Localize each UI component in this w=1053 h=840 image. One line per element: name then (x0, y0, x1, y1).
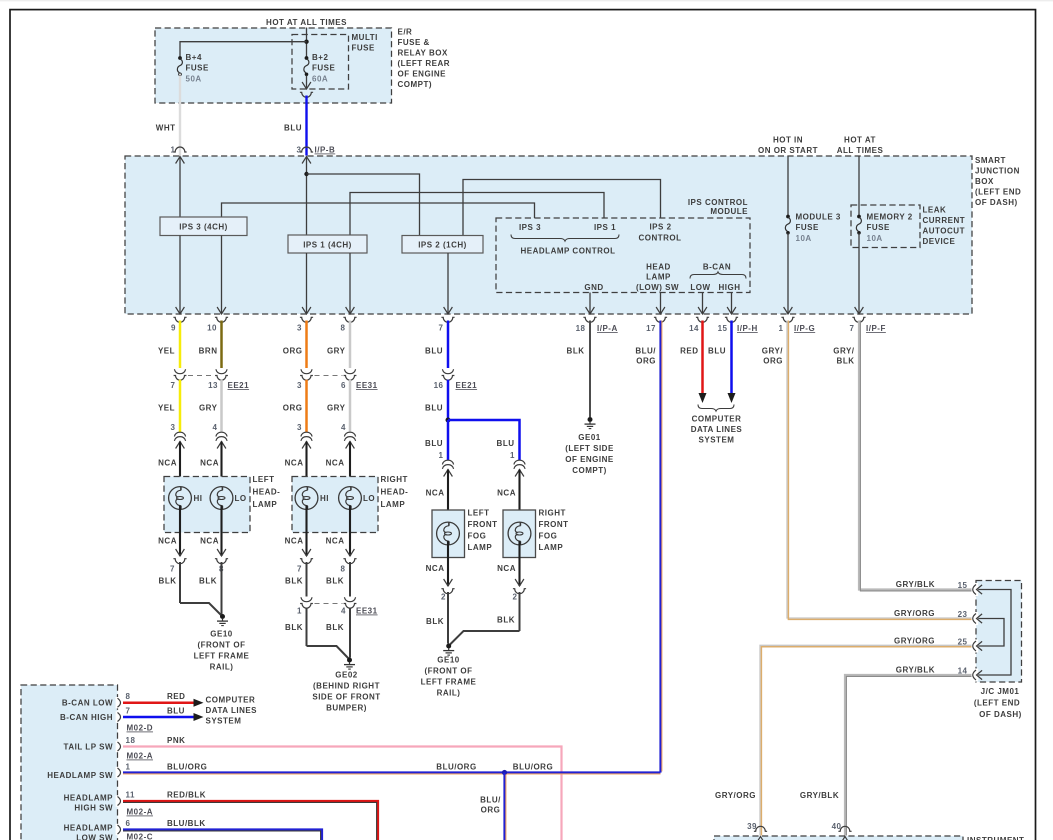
svg-text:HOT AT: HOT AT (844, 136, 876, 145)
wire BLK pin18 to GE01 (589, 321, 591, 418)
svg-text:1: 1 (126, 763, 131, 772)
connector EE31 pin4 (344, 597, 357, 608)
svg-text:BLK: BLK (159, 577, 177, 586)
pin 15 I/P-H (727, 307, 736, 314)
svg-text:RIGHT: RIGHT (539, 509, 566, 518)
wire branch to B+4 (180, 42, 307, 58)
bulb left fog (437, 522, 460, 545)
wire BLU pin7 (447, 321, 450, 369)
pin 8 (346, 307, 355, 314)
svg-text:ORG: ORG (636, 357, 656, 366)
svg-text:NCA: NCA (200, 459, 219, 468)
brace under arrows (698, 405, 734, 412)
wire YEL pin9 (179, 321, 182, 369)
svg-text:I/P-H: I/P-H (737, 324, 758, 333)
wire BLU branch to right fog (448, 420, 520, 461)
fuse B+4 50A (177, 56, 182, 76)
pin 6 M02-C (headlamp low sw) (116, 824, 120, 835)
svg-text:NCA: NCA (497, 489, 516, 498)
svg-text:6: 6 (126, 819, 131, 828)
svg-text:NCA: NCA (200, 537, 219, 546)
svg-text:GRY/ORG: GRY/ORG (894, 609, 935, 618)
svg-text:HIGH SW: HIGH SW (74, 804, 113, 813)
svg-text:WHT: WHT (156, 124, 176, 133)
bulb left headlamp HI (169, 487, 192, 510)
svg-text:HEADLAMP: HEADLAMP (64, 824, 113, 833)
connector below left headlamp pin8 (217, 549, 226, 556)
svg-text:1: 1 (510, 451, 515, 460)
connector below left fog pin2 (444, 579, 453, 586)
svg-text:BLU/: BLU/ (480, 796, 501, 805)
svg-text:3: 3 (171, 423, 176, 432)
arrow into computer data lines (red) (699, 393, 707, 403)
svg-text:7: 7 (850, 324, 855, 333)
pin 17 (656, 307, 665, 314)
svg-text:OF DASH): OF DASH) (975, 198, 1018, 207)
svg-text:8: 8 (341, 324, 346, 333)
wire RED b-can low (123, 701, 194, 704)
svg-text:COMPT): COMPT) (572, 466, 607, 475)
node fog branch (446, 418, 451, 423)
svg-text:COMPUTER: COMPUTER (692, 415, 742, 424)
svg-text:NCA: NCA (497, 564, 516, 573)
svg-text:M02-A: M02-A (127, 752, 154, 761)
svg-text:FOG: FOG (539, 532, 558, 541)
svg-text:INSTRUMENT: INSTRUMENT (967, 836, 1024, 840)
pin 7 I/P-F (855, 307, 864, 314)
ground GE10 (fogs) (443, 644, 454, 656)
left front fog lamp box (432, 510, 465, 558)
svg-text:11: 11 (126, 791, 136, 800)
right front fog lamp box (503, 510, 536, 558)
svg-text:(LEFT SIDE: (LEFT SIDE (565, 444, 614, 453)
IPS 2 (1CH) box (402, 236, 483, 254)
svg-text:(BEHIND RIGHT: (BEHIND RIGHT (313, 682, 380, 691)
svg-text:(LEFT END: (LEFT END (974, 699, 1020, 708)
svg-text:7: 7 (126, 707, 131, 716)
svg-text:EE31: EE31 (356, 381, 378, 390)
ground GE02 (344, 658, 355, 670)
wire ORG to right headlamp (305, 380, 308, 433)
connector below right headlamp pin7 (302, 549, 311, 556)
svg-text:7: 7 (439, 324, 444, 333)
wire NCA left headlamp HI (179, 442, 181, 491)
svg-text:BLU/ORG: BLU/ORG (167, 763, 207, 772)
svg-text:GRY/BLK: GRY/BLK (896, 666, 935, 675)
svg-text:JUNCTION: JUNCTION (975, 167, 1020, 176)
svg-text:6: 6 (341, 381, 346, 390)
svg-text:LEFT FRAME: LEFT FRAME (194, 652, 250, 661)
svg-text:LO: LO (363, 494, 375, 503)
svg-text:M02-C: M02-C (127, 833, 154, 840)
wire BLU/ORG headlamp sw (123, 771, 661, 773)
svg-text:HI: HI (194, 494, 203, 503)
svg-text:BLU/: BLU/ (635, 347, 656, 356)
svg-text:BLU: BLU (167, 707, 185, 716)
arrow to computer data lines (red) (194, 699, 204, 707)
svg-text:BLK: BLK (837, 357, 855, 366)
svg-text:COMPT): COMPT) (398, 80, 433, 89)
fuse MODULE 3 10A (785, 215, 790, 235)
connector EE21 pin7 (174, 369, 187, 380)
svg-text:RED: RED (680, 347, 698, 356)
svg-text:NCA: NCA (426, 564, 445, 573)
svg-text:16: 16 (434, 381, 444, 390)
svg-text:4: 4 (213, 423, 218, 432)
svg-text:IPS CONTROL: IPS CONTROL (688, 198, 748, 207)
bulb right headlamp HI (295, 487, 318, 510)
svg-text:RELAY BOX: RELAY BOX (398, 49, 448, 58)
wire NCA left fog (447, 470, 449, 527)
svg-text:GND: GND (584, 283, 603, 292)
svg-text:GE10: GE10 (437, 656, 460, 665)
svg-text:15: 15 (718, 324, 728, 333)
svg-text:FUSE: FUSE (867, 223, 891, 232)
svg-text:10: 10 (207, 324, 217, 333)
svg-text:B+4: B+4 (186, 53, 202, 62)
svg-text:2: 2 (513, 593, 518, 602)
wire ORG pin3 (305, 321, 308, 369)
wire NCA right headlamp HI (305, 442, 307, 491)
wire RED pin14 to computer data lines (701, 321, 704, 394)
svg-text:E/R: E/R (398, 28, 413, 37)
svg-text:GE01: GE01 (578, 433, 601, 442)
svg-text:3: 3 (297, 381, 302, 390)
wire BLU b-can high (123, 716, 194, 719)
wire GRY pin8 (349, 321, 352, 369)
svg-text:BLU/ORG: BLU/ORG (436, 763, 476, 772)
wire right HI to ground bend (307, 646, 350, 660)
svg-text:BLU: BLU (425, 404, 443, 413)
svg-text:LEFT FRAME: LEFT FRAME (421, 678, 477, 687)
pin 7 M02-D (b-can high) (116, 711, 120, 722)
bulb right fog (508, 522, 531, 545)
wire GRY to headlamp (220, 380, 223, 433)
svg-text:M02-A: M02-A (127, 808, 154, 817)
svg-text:1: 1 (439, 451, 444, 460)
svg-text:OF ENGINE: OF ENGINE (565, 455, 614, 464)
wire headlamp low sw to pin 17 (660, 293, 662, 315)
svg-text:3: 3 (297, 423, 302, 432)
svg-text:FUSE: FUSE (186, 64, 210, 73)
wire B+2 to multi-fuse connector (306, 76, 308, 89)
svg-text:BLK: BLK (426, 617, 444, 626)
svg-text:SYSTEM: SYSTEM (699, 436, 735, 445)
svg-text:18: 18 (126, 736, 136, 745)
svg-text:IPS 3: IPS 3 (519, 223, 541, 232)
svg-text:LAMP: LAMP (539, 543, 564, 552)
svg-text:EE31: EE31 (356, 607, 378, 616)
wire right fog to ground bend (450, 631, 520, 645)
svg-text:1: 1 (171, 146, 176, 155)
wire WHT (179, 76, 181, 156)
wire pin1 to IPS3 (179, 157, 181, 217)
wire b-can low to pin 14 (702, 293, 704, 315)
svg-text:LAMP: LAMP (646, 273, 671, 282)
svg-text:SIDE OF FRONT: SIDE OF FRONT (312, 693, 380, 702)
IPS 1 (4CH) box (288, 235, 367, 253)
wire BLU pin15 to computer data lines (730, 321, 733, 394)
svg-text:BLU: BLU (497, 439, 515, 448)
svg-text:CURRENT: CURRENT (923, 216, 966, 225)
left headlamp box (164, 477, 250, 533)
svg-text:BLU/ORG: BLU/ORG (513, 763, 553, 772)
svg-text:M02-D: M02-D (127, 724, 154, 733)
pin 1 M02-A (headlamp sw) (116, 767, 120, 778)
svg-text:GRY/BLK: GRY/BLK (896, 580, 935, 589)
svg-text:OF ENGINE: OF ENGINE (398, 70, 447, 79)
svg-text:FUSE &: FUSE & (398, 38, 430, 47)
svg-text:MODULE 3: MODULE 3 (796, 213, 841, 222)
J/C JM01 box (976, 581, 1022, 683)
svg-text:18: 18 (576, 324, 586, 333)
svg-text:HIGH: HIGH (719, 283, 741, 292)
wire IPS3 to control module (222, 203, 535, 218)
svg-text:2: 2 (441, 593, 446, 602)
svg-text:BLU: BLU (708, 347, 726, 356)
fuse MEMORY 2 10A (856, 215, 861, 235)
svg-text:CONTROL: CONTROL (638, 234, 681, 243)
wire YEL to headlamp (179, 380, 182, 433)
arrow to computer data lines (blue) (194, 713, 204, 721)
svg-text:HOT IN: HOT IN (773, 136, 803, 145)
wire GRY/ORG instrument pin39 to JM01 pin25 (760, 645, 972, 835)
svg-text:SMART: SMART (975, 156, 1006, 165)
IPS control module box (496, 218, 750, 293)
svg-text:HEADLAMP CONTROL: HEADLAMP CONTROL (521, 247, 616, 256)
svg-text:I/P-G: I/P-G (794, 324, 815, 333)
svg-text:HEAD: HEAD (646, 263, 671, 272)
svg-text:NCA: NCA (158, 459, 177, 468)
wire hot-at to memory2 fuse (858, 156, 860, 217)
svg-text:3: 3 (297, 146, 302, 155)
svg-text:7: 7 (170, 565, 175, 574)
svg-text:1: 1 (297, 607, 302, 616)
wire GRY/ORG pin1 I/P-G to JM01 pin23 (787, 321, 972, 619)
svg-text:FUSE: FUSE (796, 223, 820, 232)
svg-text:BLU: BLU (425, 439, 443, 448)
svg-text:50A: 50A (186, 75, 202, 84)
svg-text:EE21: EE21 (228, 381, 250, 390)
right headlamp box (292, 477, 378, 533)
wires through fog bulbs down (447, 541, 449, 586)
connector EE21 pin13 (215, 369, 228, 380)
svg-text:8: 8 (341, 565, 346, 574)
pin 18 I/P-A (586, 307, 595, 314)
pin 9 (176, 307, 185, 314)
svg-text:BLU: BLU (425, 347, 443, 356)
svg-text:J/C JM01: J/C JM01 (981, 687, 1020, 696)
pin 11 M02-A (headlamp high sw) (116, 795, 120, 806)
wire left HI to ground bend (180, 603, 223, 617)
svg-text:ALL TIMES: ALL TIMES (837, 146, 884, 155)
wires through headlamp bulbs down (179, 506, 181, 557)
svg-text:15: 15 (958, 581, 968, 590)
svg-text:(LEFT END: (LEFT END (975, 188, 1021, 197)
connector EE31 pin1 (300, 597, 313, 608)
svg-text:GRY/ORG: GRY/ORG (715, 791, 756, 800)
svg-text:BOX: BOX (975, 177, 994, 186)
svg-text:DEVICE: DEVICE (923, 237, 956, 246)
svg-text:14: 14 (689, 324, 699, 333)
dashed link EE31 (315, 375, 343, 377)
svg-text:ORG: ORG (763, 357, 783, 366)
wire NCA left headlamp LO (220, 442, 222, 491)
connector below left headlamp pin7 (176, 549, 185, 556)
svg-text:RED/BLK: RED/BLK (167, 791, 206, 800)
wire module3 fuse to pin 1 (787, 233, 789, 314)
wire branch to IPS2 (307, 174, 420, 236)
JM01 internal link pin23-pin25 (976, 619, 1004, 647)
svg-text:3: 3 (297, 324, 302, 333)
svg-text:ORG: ORG (283, 347, 303, 356)
wire GRY/BLK pin7 I/P-F to JM01 pin15 (859, 321, 972, 590)
node junction above B+2 (304, 40, 308, 44)
wire IPS1 to control module (350, 193, 604, 236)
svg-text:1: 1 (779, 324, 784, 333)
svg-text:ORG: ORG (481, 806, 501, 815)
pin 1 I/P-G (784, 307, 793, 314)
brace under IPS3/IPS1 (511, 235, 619, 242)
wire NCA right headlamp LO (349, 442, 351, 491)
svg-text:7: 7 (297, 565, 302, 574)
svg-text:BLK: BLK (326, 623, 344, 632)
multi fuse box (292, 35, 349, 90)
svg-text:LEAK: LEAK (923, 206, 947, 215)
wire GRY to right headlamp (349, 380, 352, 433)
svg-text:MULTI: MULTI (352, 33, 378, 42)
svg-text:4: 4 (341, 607, 346, 616)
dashed link EE21 (188, 375, 214, 377)
svg-text:FRONT: FRONT (468, 520, 498, 529)
wire BLU/ORG pin17 long (659, 321, 661, 773)
svg-text:IPS 1: IPS 1 (594, 223, 616, 232)
svg-text:GE02: GE02 (335, 671, 358, 680)
node headlamp sw branch (502, 770, 507, 775)
connector below right fog pin2 (515, 579, 524, 586)
svg-text:FUSE: FUSE (312, 64, 336, 73)
svg-text:BLK: BLK (285, 577, 303, 586)
svg-text:HI: HI (320, 494, 329, 503)
node on pin3 feed (304, 172, 308, 176)
pin 14 (698, 307, 707, 314)
svg-text:AUTOCUT: AUTOCUT (923, 227, 965, 236)
svg-text:BLU: BLU (284, 124, 302, 133)
svg-text:LEFT: LEFT (253, 475, 275, 484)
svg-text:10A: 10A (867, 234, 883, 243)
wire RED/BLK headlamp high sw (123, 801, 378, 840)
svg-text:FRONT: FRONT (539, 520, 569, 529)
svg-text:GRY/ORG: GRY/ORG (894, 637, 935, 646)
wire BLU to left fog (447, 420, 450, 461)
svg-text:MODULE: MODULE (710, 207, 748, 216)
svg-text:FUSE: FUSE (352, 44, 376, 53)
svg-text:RAIL): RAIL) (437, 689, 461, 698)
wire PNK tail lp sw (123, 747, 562, 840)
svg-text:DATA LINES: DATA LINES (206, 706, 258, 715)
wire BLU to fog junction (447, 380, 450, 420)
bulb left headlamp LO (210, 487, 233, 510)
svg-text:GE10: GE10 (210, 630, 233, 639)
wire GRY/BLK instrument pin40 to JM01 pin14 (845, 675, 972, 836)
svg-text:RAIL): RAIL) (210, 663, 234, 672)
svg-text:BLK: BLK (326, 577, 344, 586)
svg-text:ON OR START: ON OR START (758, 146, 818, 155)
svg-text:B-CAN HIGH: B-CAN HIGH (60, 713, 113, 722)
svg-text:NCA: NCA (426, 489, 445, 498)
fuse B+2 60A (304, 56, 309, 76)
wire BLU/ORG branch down (503, 773, 505, 840)
svg-text:I/P-F: I/P-F (866, 324, 886, 333)
svg-text:HEADLAMP: HEADLAMP (64, 794, 113, 803)
svg-text:IPS 2 (1CH): IPS 2 (1CH) (418, 241, 467, 250)
IPS 3 (4CH) box (160, 217, 247, 236)
arrow into computer data lines (blue) (728, 393, 736, 403)
svg-text:GRY: GRY (199, 404, 218, 413)
svg-text:9: 9 (171, 324, 176, 333)
wire from HOT AT ALL TIMES down to B+2 (306, 28, 308, 59)
svg-text:LO: LO (235, 494, 247, 503)
pin 8 M02-D (b-can low) (116, 697, 120, 708)
pin 10 (217, 307, 226, 314)
pin 3 (302, 307, 311, 314)
wire IPS2 to control module (463, 180, 661, 236)
svg-text:(FRONT OF: (FRONT OF (424, 667, 472, 676)
svg-text:ORG: ORG (283, 404, 303, 413)
svg-text:MEMORY 2: MEMORY 2 (867, 213, 913, 222)
svg-text:LOW SW: LOW SW (76, 834, 113, 840)
svg-text:13: 13 (208, 381, 218, 390)
svg-text:NCA: NCA (326, 537, 345, 546)
svg-text:IPS 3 (4CH): IPS 3 (4CH) (179, 223, 228, 232)
svg-text:EE21: EE21 (456, 381, 478, 390)
svg-text:(LOW) SW: (LOW) SW (636, 283, 679, 292)
wires IPS boxes to bottom pins (179, 236, 181, 315)
svg-text:(FRONT OF: (FRONT OF (197, 641, 245, 650)
wire BLU (305, 96, 307, 156)
svg-text:LOW: LOW (690, 283, 710, 292)
svg-text:BLU/BLK: BLU/BLK (167, 819, 206, 828)
bulb right headlamp LO (339, 487, 362, 510)
leak current autocut device box (851, 205, 920, 248)
svg-text:4: 4 (341, 423, 346, 432)
svg-text:NCA: NCA (326, 459, 345, 468)
svg-text:BLK: BLK (285, 623, 303, 632)
svg-text:BLK: BLK (199, 577, 217, 586)
dashed link EE31 lower (315, 603, 343, 605)
pin 7 (444, 307, 453, 314)
svg-text:SYSTEM: SYSTEM (206, 717, 242, 726)
lighting switch box (21, 685, 118, 840)
smart junction box (125, 156, 972, 314)
svg-text:OF DASH): OF DASH) (979, 710, 1022, 719)
svg-text:23: 23 (958, 610, 968, 619)
svg-text:HOT AT ALL TIMES: HOT AT ALL TIMES (266, 18, 347, 27)
wire hot-in to module3 fuse (787, 156, 789, 217)
svg-text:FOG: FOG (468, 532, 487, 541)
svg-text:B-CAN LOW: B-CAN LOW (62, 699, 113, 708)
svg-text:60A: 60A (312, 75, 328, 84)
svg-text:DATA LINES: DATA LINES (691, 425, 743, 434)
wire b-can high to pin 15 (731, 293, 733, 315)
svg-text:RED: RED (167, 692, 185, 701)
connector EE31 pin3 (300, 369, 313, 380)
svg-text:10A: 10A (796, 234, 812, 243)
svg-text:NCA: NCA (285, 459, 304, 468)
svg-text:B+2: B+2 (312, 53, 328, 62)
svg-text:B-CAN: B-CAN (703, 263, 731, 272)
ground GE10 (headlamps) (217, 614, 228, 626)
